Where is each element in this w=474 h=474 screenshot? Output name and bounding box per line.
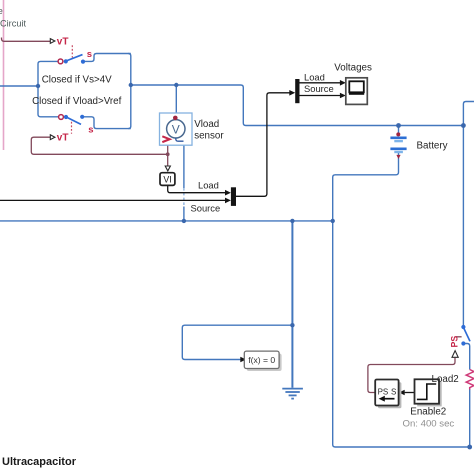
svg-text:s: s — [88, 124, 93, 135]
svg-text:sensor: sensor — [194, 130, 224, 141]
svg-text:e: e — [0, 6, 3, 17]
svg-text:PS: PS — [450, 336, 460, 348]
svg-text:Vload: Vload — [194, 119, 219, 130]
svg-text:f(x) = 0: f(x) = 0 — [248, 355, 275, 365]
svg-text:S: S — [391, 388, 396, 397]
svg-text:Load: Load — [304, 71, 325, 82]
svg-text:Source: Source — [191, 202, 221, 213]
svg-text:Closed if Vload>Vref: Closed if Vload>Vref — [32, 96, 121, 107]
svg-text:Closed if Vs>4V: Closed if Vs>4V — [42, 74, 112, 85]
svg-text:V: V — [172, 123, 180, 137]
svg-text:VI: VI — [163, 174, 171, 184]
svg-text:s: s — [87, 49, 92, 60]
svg-text:PS: PS — [378, 388, 389, 397]
svg-text:Ultracapacitor: Ultracapacitor — [2, 456, 77, 468]
svg-text:Enable2: Enable2 — [410, 406, 446, 417]
svg-text:Circuit: Circuit — [0, 18, 26, 28]
svg-text:Load: Load — [198, 180, 219, 191]
svg-text:On: 400 sec: On: 400 sec — [403, 419, 455, 430]
svg-text:Load2: Load2 — [432, 374, 459, 385]
svg-text:Voltages: Voltages — [334, 63, 372, 74]
svg-text:vT: vT — [57, 36, 69, 47]
svg-text:Source: Source — [304, 83, 334, 94]
svg-text:vT: vT — [57, 133, 69, 144]
svg-text:Battery: Battery — [417, 140, 448, 151]
